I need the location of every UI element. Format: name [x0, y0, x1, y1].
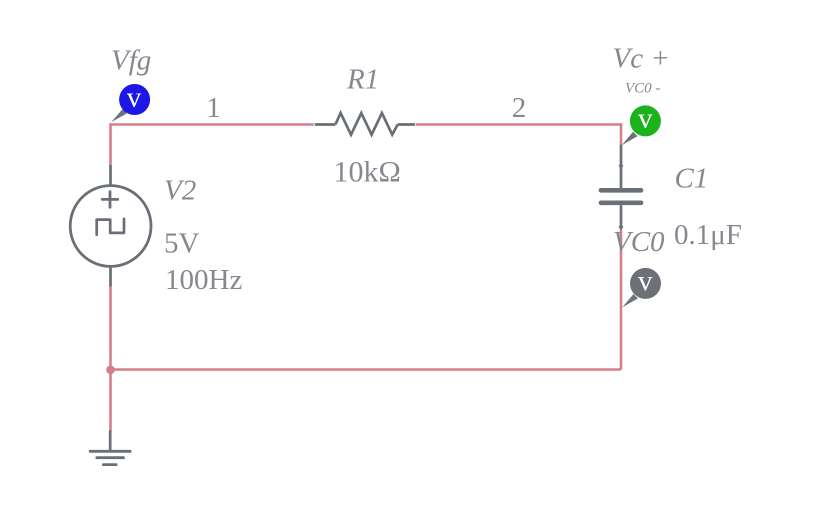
svg-text:0.1μF: 0.1μF [674, 219, 742, 251]
svg-text:100Hz: 100Hz [165, 264, 242, 296]
svg-text:VC0: VC0 [613, 226, 665, 258]
svg-text:Vfg: Vfg [111, 45, 151, 77]
svg-text:Vc +: Vc + [613, 43, 670, 75]
svg-text:R1: R1 [346, 64, 379, 96]
svg-text:2: 2 [512, 92, 527, 124]
svg-text:10kΩ: 10kΩ [334, 156, 401, 189]
svg-text:1: 1 [206, 92, 221, 124]
svg-text:v: v [638, 103, 653, 135]
svg-text:C1: C1 [675, 163, 709, 195]
svg-text:V2: V2 [164, 175, 196, 207]
svg-text:v: v [127, 82, 142, 114]
svg-text:v: v [638, 265, 653, 297]
svg-text:VC0 -: VC0 - [625, 81, 660, 97]
svg-text:5V: 5V [164, 228, 200, 260]
